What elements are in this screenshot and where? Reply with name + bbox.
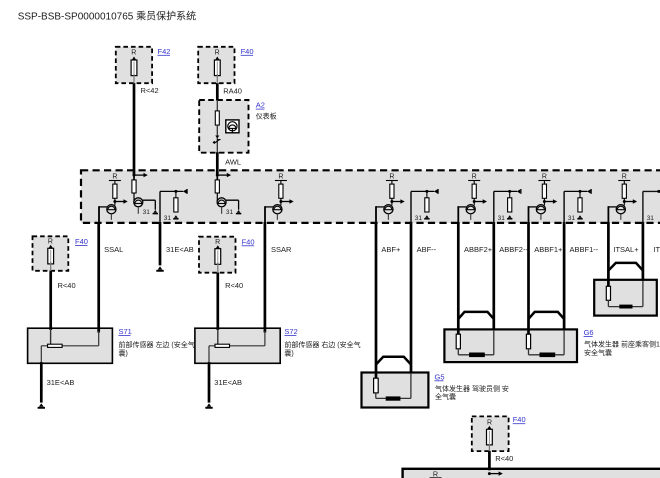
side airbag generator box (right edge) [594,280,657,316]
svg-text:S72: S72 [284,327,297,336]
svg-text:R<40: R<40 [58,281,76,290]
svg-text:AWL: AWL [225,158,241,167]
sensor S71 box [28,328,113,363]
wire ITSAL+ [607,222,610,287]
svg-text:R: R [131,50,136,57]
svg-text:A2: A2 [256,101,265,110]
wire F40 lower-right to S72 [216,272,219,330]
svg-text:全气囊: 全气囊 [435,392,456,401]
shorting bridge ITSAL pair [608,263,643,271]
svg-text:F40: F40 [241,47,254,56]
shorting bridge ABBF2 pair [458,312,494,319]
svg-text:前部传感器 左边 (安全气: 前部传感器 左边 (安全气 [119,340,195,349]
wire ABF+ [375,222,378,379]
svg-text:F40: F40 [242,237,255,246]
wire ABF- [410,222,413,374]
wire S71 ground lead [40,362,43,403]
svg-text:ABBF2--: ABBF2-- [499,245,528,254]
shorting bridge ABF pair [376,357,411,365]
svg-text:RA40: RA40 [223,86,242,95]
svg-text:囊): 囊) [284,348,293,357]
A2 indicator lamp symbol [226,120,239,133]
gas generator G6 box [444,329,577,362]
driver channel ABBF2+ [458,173,487,224]
wire ABBF1- [563,222,566,331]
wire F40 bottom to module [488,451,491,471]
driver channel ABBF1+ [529,173,558,224]
svg-text:31: 31 [647,215,655,222]
svg-text:ABBF1+: ABBF1+ [534,245,563,254]
svg-text:ABF--: ABF-- [417,245,437,254]
wire ITSAL- [642,222,645,281]
svg-text:G5: G5 [435,372,445,381]
fuse box F40 lower-right [199,237,236,273]
instrument panel A2 box (dashed) [199,100,248,153]
svg-text:G6: G6 [584,328,594,337]
wire SSAL [97,222,100,333]
wire F40 to A2 [216,83,219,101]
driver channel ABF+ [376,173,405,224]
svg-text:ITSAL+: ITSAL+ [613,245,639,254]
A2 internal wire [216,100,218,111]
shorting bridge ABBF1 pair [529,312,565,319]
return channel 31E&lt;AB [160,189,187,224]
svg-text:ABBF1--: ABBF1-- [570,245,599,254]
G5 squib circuit [374,378,379,393]
svg-text:前部传感器 右边 (安全气: 前部传感器 右边 (安全气 [284,340,360,349]
svg-text:SSAL: SSAL [104,245,123,254]
svg-text:仪表板: 仪表板 [256,112,277,121]
driver channel SSAR [265,173,294,224]
driver channel SSAL [99,173,128,224]
svg-text:R<42: R<42 [141,86,159,95]
svg-text:SSAR: SSAR [271,245,292,254]
wire ABBF2- [492,222,495,331]
svg-text:SSP-BSB-SP0000010765 乘员保护系统: SSP-BSB-SP0000010765 乘员保护系统 [18,9,196,22]
wire ABBF2+ [457,222,460,335]
return channel ABBF1- [564,189,591,224]
wire SSAR [264,222,267,333]
svg-text:ABBF2+: ABBF2+ [464,245,493,254]
wire S72 ground lead [208,362,211,403]
svg-text:F40: F40 [75,237,88,246]
ground below S72 [205,403,212,407]
ground 31E&lt;AB middle [156,266,163,270]
svg-text:R<40: R<40 [495,454,513,463]
A2 connector arrow [215,136,219,139]
G6 squib circuit ABBF1 [526,334,530,349]
svg-text:R: R [215,50,220,57]
svg-text:F40: F40 [513,415,526,424]
fuse box F42 [116,47,152,83]
ground below S71 [38,403,45,407]
svg-text:R: R [215,239,220,246]
svg-text:R: R [433,470,438,478]
sensor S72 box [195,328,280,363]
svg-text:R: R [48,239,53,246]
return channel ABBF2- [494,189,521,224]
fuse box F40 bottom [472,416,509,451]
svg-text:气体发生器 前座乘客侧1: 气体发生器 前座乘客侧1 [584,340,660,349]
S71 internal wiring [50,329,52,344]
bottom control module box [403,469,660,478]
svg-text:R<40: R<40 [225,281,243,290]
driver channel ITSAL+ [608,173,637,224]
fuse box F40 lower-left [33,236,69,270]
svg-text:31E<AB: 31E<AB [47,378,75,387]
airbag control module box (dashed) [81,170,660,223]
svg-text:S71: S71 [119,327,132,336]
wire AWL A2 to module [216,152,219,175]
wire F42 to module [133,83,136,176]
return channel ITSAL- partial [643,191,660,224]
side airbag squib circuit [606,286,610,300]
svg-text:囊): 囊) [119,348,128,357]
A2 internal wire lower [216,125,218,153]
input channel AWL [215,170,241,216]
S71 sensor element [48,344,63,347]
fuse box F40 top [198,47,234,83]
G6 squib circuit ABBF2 [456,334,460,349]
S72 internal wiring [217,329,219,344]
svg-text:F42: F42 [158,47,171,56]
svg-text:安全气囊: 安全气囊 [584,348,612,357]
A2 lamp resistor [215,111,219,125]
wire ABBF1+ [527,222,530,335]
svg-text:ITSAL--: ITSAL-- [653,245,660,254]
svg-text:R: R [487,419,492,426]
svg-text:31E<AB: 31E<AB [166,245,194,254]
svg-text:气体发生器 驾驶员侧 安: 气体发生器 驾驶员侧 安 [435,384,509,393]
input channel R&lt;42 [132,170,158,216]
gas generator G5 box [362,373,429,408]
svg-text:ABF+: ABF+ [381,245,401,254]
wire F40 lower-left to S71 [49,271,52,331]
svg-text:31E<AB: 31E<AB [214,378,242,387]
wire 31E&lt;AB middle [159,222,162,265]
return channel ABF- [411,189,438,224]
S72 sensor element [215,344,230,347]
